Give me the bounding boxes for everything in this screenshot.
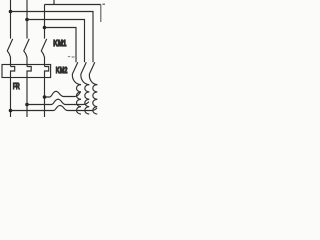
svg-text:KM2: KM2 bbox=[56, 66, 68, 75]
node junction dot tap 3 bbox=[9, 109, 13, 113]
wire tap 1 to coil 1 bbox=[45, 91, 81, 97]
coil winding 2 bbox=[85, 85, 89, 115]
thermal relay FR heater element 3 bbox=[45, 67, 49, 118]
wire tap 2 to coil 2 bbox=[27, 99, 89, 104]
svg-text:FR: FR bbox=[13, 82, 20, 91]
coil winding 1 bbox=[77, 85, 82, 115]
wire tap 3 to coil 3 bbox=[11, 105, 97, 110]
contactor KM2 pole 3 contact bbox=[89, 62, 97, 85]
wire node L1 to KM2 pole 3 bbox=[11, 12, 94, 63]
wire phase L2 vertical bbox=[26, 0, 28, 39]
node junction dot L1 bbox=[9, 10, 13, 14]
wire phase L1 vertical bbox=[10, 0, 12, 39]
contactor KM2 pole 1 contact bbox=[72, 62, 81, 85]
thermal relay FR heater element 1 bbox=[11, 67, 15, 118]
contactor KM2 pole 2 contact bbox=[81, 62, 89, 85]
wire phase L3 vertical bbox=[44, 5, 46, 39]
wire node L3 to KM2 pole 1 bbox=[45, 28, 77, 63]
contactor KM1 pole 1 contact bbox=[7, 39, 12, 67]
dashes linkage KM2 bbox=[68, 56, 75, 58]
thermal relay FR box bbox=[2, 65, 51, 78]
contactor KM1 pole 3 contact bbox=[41, 39, 46, 67]
wire edge dash top right bbox=[102, 3, 105, 5]
node junction dot tap 2 bbox=[25, 103, 29, 107]
svg-text:KM1: KM1 bbox=[53, 39, 67, 48]
wire node L2 to KM2 pole 2 bbox=[27, 20, 85, 63]
coil winding 3 bbox=[93, 85, 98, 115]
wire L3 supply entry stub bbox=[53, 0, 55, 5]
wire right feeder vertical (faded end) bbox=[100, 5, 102, 23]
node junction dot tap 1 bbox=[43, 95, 47, 99]
contactor KM1 pole 2 contact bbox=[24, 39, 29, 67]
wire top horizontal feeder bbox=[45, 4, 101, 6]
node junction dot L2 bbox=[25, 18, 29, 22]
thermal relay FR heater element 2 bbox=[27, 67, 31, 118]
node junction dot L3 bbox=[43, 26, 47, 30]
